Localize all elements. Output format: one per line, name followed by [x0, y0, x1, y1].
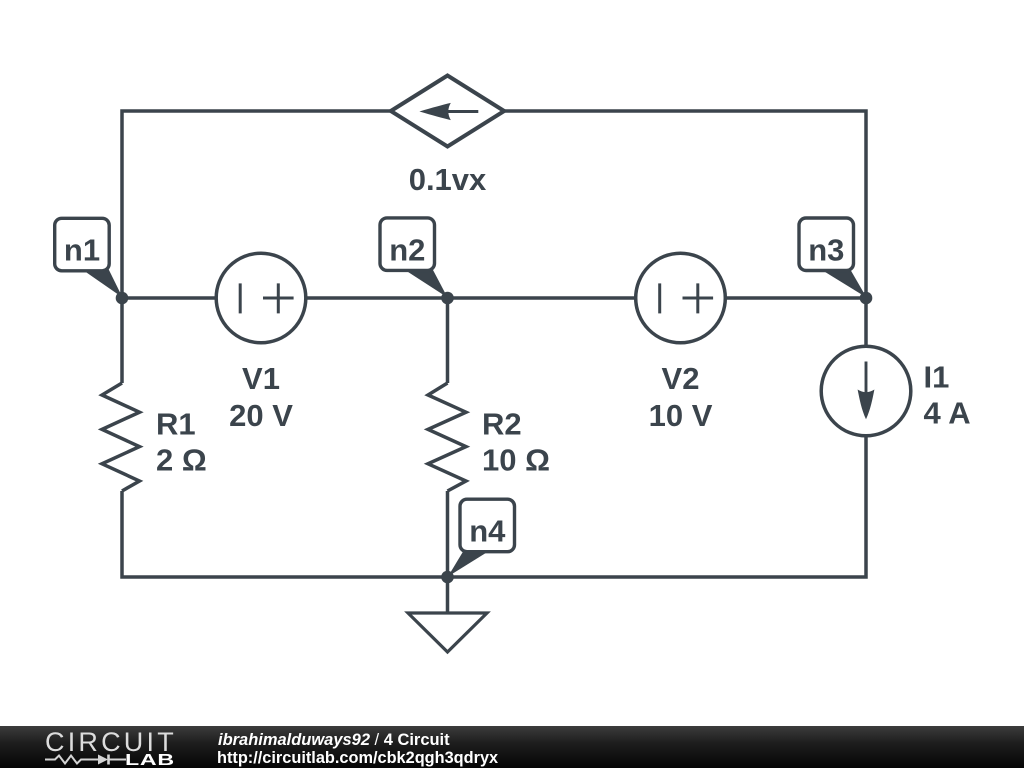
- CircuitLab logo text: [45, 729, 177, 756]
- svg-text:0.1vx: 0.1vx: [409, 162, 487, 197]
- svg-text:n1: n1: [64, 233, 100, 268]
- svg-text:10 V: 10 V: [649, 398, 713, 433]
- wire loop: left rail, top rail, right rail, bottom rail with R1 leads: [122, 111, 866, 577]
- wire middle rail: [122, 296, 866, 300]
- svg-text:n4: n4: [469, 513, 506, 548]
- node n2 label bubble: [380, 218, 448, 298]
- F1 arrow: [419, 103, 478, 120]
- svg-text:20 V: 20 V: [229, 398, 293, 433]
- svg-text:R1: R1: [156, 406, 196, 441]
- wire R2 bottom lead: [446, 491, 450, 577]
- current source I1: [821, 346, 911, 436]
- CircuitLab logo resistor-diode glyph: [45, 752, 129, 768]
- svg-text:V1: V1: [242, 361, 280, 396]
- svg-text:2 Ω: 2 Ω: [156, 442, 207, 477]
- node n4 dot: [441, 571, 454, 584]
- title line: [218, 731, 450, 748]
- node n1 label bubble: [55, 218, 123, 297]
- voltage source V1: [216, 253, 306, 343]
- wire ground lead: [446, 577, 450, 613]
- svg-text:V2: V2: [662, 361, 700, 396]
- node n2 dot: [441, 292, 454, 305]
- node n4 label bubble: [448, 499, 515, 576]
- node n3 dot: [860, 292, 873, 305]
- svg-text:n3: n3: [808, 233, 844, 268]
- resistor R2 body: [428, 383, 466, 491]
- footer bar: [0, 726, 1024, 768]
- wire R2 top lead: [446, 298, 450, 383]
- ground: [408, 613, 487, 652]
- voltage source V2: [636, 253, 726, 343]
- url line: [217, 749, 498, 766]
- svg-text:R2: R2: [482, 406, 522, 441]
- resistor R1 body: [102, 383, 140, 491]
- svg-text:n2: n2: [389, 233, 425, 268]
- node n3 label bubble: [799, 218, 867, 298]
- svg-text:4 A: 4 A: [924, 396, 971, 431]
- dependent current source F1 diamond: [391, 76, 504, 147]
- svg-text:10 Ω: 10 Ω: [482, 442, 550, 477]
- svg-text:I1: I1: [924, 359, 950, 394]
- node n1 dot: [116, 292, 129, 305]
- LAB logo text: [125, 753, 175, 768]
